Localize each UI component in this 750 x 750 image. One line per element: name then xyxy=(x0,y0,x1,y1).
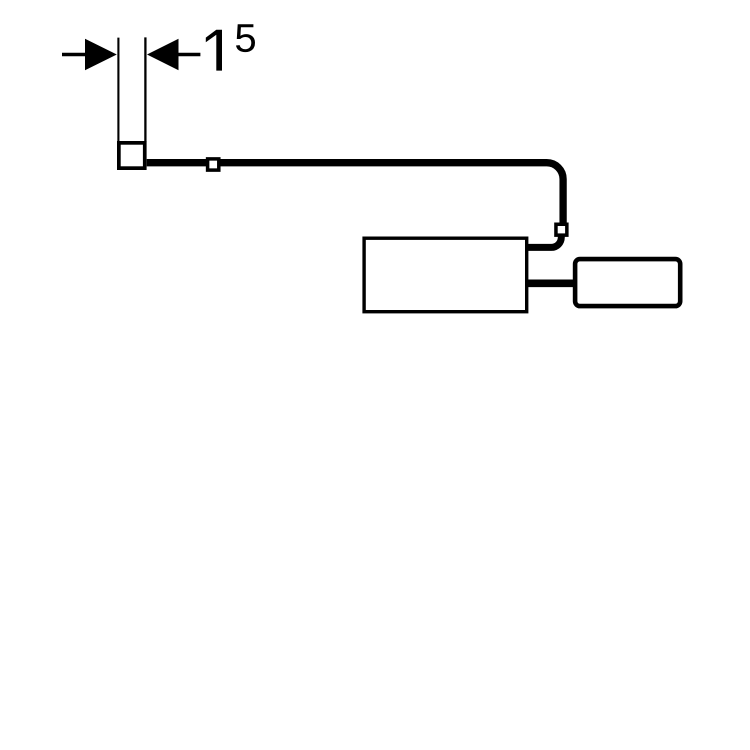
dimension arrow right head xyxy=(147,39,179,70)
dimension arrow left tail xyxy=(62,53,88,56)
dimension label 1 xyxy=(206,30,222,71)
dimension label superscript 5 xyxy=(236,24,255,52)
cable marker square on main cable xyxy=(208,159,219,170)
wire between control box and power box xyxy=(527,279,575,287)
power supply box xyxy=(575,259,680,306)
dimension arrow left head xyxy=(85,39,117,70)
wall conduit left line xyxy=(117,38,119,142)
cable elbow into control box xyxy=(527,235,561,247)
wall conduit right line xyxy=(144,37,146,142)
control box xyxy=(364,238,527,312)
junction box at conduit end xyxy=(119,143,145,168)
dimension arrow right tail xyxy=(178,53,201,56)
main cable from junction box to connector xyxy=(147,163,563,224)
connector square on vertical cable xyxy=(556,224,567,235)
